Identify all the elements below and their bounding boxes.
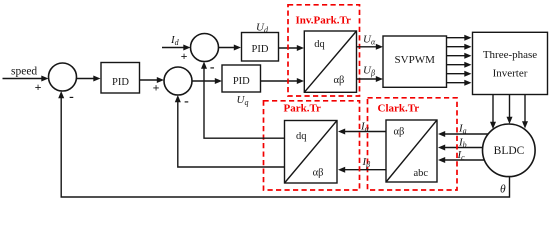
block PID3 d-axis current controller bbox=[242, 33, 279, 62]
node Ia label bbox=[458, 123, 467, 136]
boundary Clark.Tr red dashed box bbox=[368, 98, 458, 190]
block U2 SVPWM modulator bbox=[383, 36, 447, 87]
svg-text:Inverter: Inverter bbox=[493, 68, 528, 80]
node Ud label bbox=[256, 22, 269, 35]
wire SVPWM gate signal 3 to inverter bbox=[447, 53, 472, 59]
node theta label bbox=[500, 183, 506, 195]
node U-alpha label bbox=[363, 34, 376, 47]
summing junction S1 (speed loop) bbox=[49, 63, 77, 91]
wire I-alpha from Clark to Park transform bbox=[338, 129, 386, 135]
svg-text:Uβ: Uβ bbox=[363, 65, 375, 78]
wire Ib from BLDC to Clark transform bbox=[438, 145, 483, 151]
node plus sign at S2 bbox=[153, 81, 160, 95]
node plus sign at S3 bbox=[181, 49, 188, 63]
node I-beta label bbox=[362, 156, 371, 169]
wire Ia from BLDC to Clark transform bbox=[438, 131, 488, 137]
node minus sign at S2 bbox=[184, 94, 189, 109]
summing junction S3 (d-axis current loop) bbox=[191, 34, 219, 62]
svg-text:αβ: αβ bbox=[394, 127, 405, 138]
svg-text:Clark.Tr: Clark.Tr bbox=[378, 103, 420, 115]
wire U-beta from inverse Park to SVPWM bbox=[357, 76, 384, 82]
node Inv.Park.Tr label bbox=[296, 14, 352, 26]
wire U-alpha from inverse Park to SVPWM bbox=[357, 44, 384, 50]
svg-text:αβ: αβ bbox=[313, 168, 324, 179]
svg-text:SVPWM: SVPWM bbox=[395, 54, 436, 66]
svg-text:PID: PID bbox=[233, 76, 250, 87]
wire inverter phase B to BLDC bbox=[507, 95, 513, 125]
wire SVPWM gate signal 1 to inverter bbox=[447, 35, 472, 41]
wire inverter phase A to BLDC bbox=[490, 95, 496, 130]
wire S1 output to speed PID bbox=[77, 76, 101, 82]
wire theta feedback from BLDC along bottom to summing junction S1 bbox=[58, 91, 509, 197]
wire Id feedback from Park transform up to summing junction S3 bbox=[201, 62, 285, 139]
wire PID3 output to inverse Park dq input bbox=[279, 45, 305, 51]
wire PID1 output to summing junction S2 bbox=[140, 77, 165, 83]
block U4 Clark transform alpha-beta to abc bbox=[386, 120, 437, 182]
block M1 BLDC motor bbox=[483, 124, 536, 177]
boundary Inv.Park.Tr red dashed box bbox=[288, 5, 360, 96]
wire PID2 output to inverse Park dq input bbox=[261, 78, 305, 84]
svg-text:speed: speed bbox=[11, 65, 37, 77]
summing junction S2 (q-axis current loop) bbox=[164, 67, 192, 95]
block PID2 q-axis current controller bbox=[222, 65, 261, 92]
svg-text:Ud: Ud bbox=[256, 22, 269, 35]
wire inverter phase C to BLDC bbox=[522, 95, 528, 129]
node minus sign at S3 bbox=[210, 60, 215, 75]
node I-alpha label bbox=[360, 121, 370, 134]
svg-text:dq: dq bbox=[296, 131, 307, 142]
block U3 three-phase inverter bbox=[473, 32, 548, 94]
svg-text:BLDC: BLDC bbox=[494, 145, 525, 157]
svg-text:Inv.Park.Tr: Inv.Park.Tr bbox=[296, 14, 352, 26]
node Ic label bbox=[457, 149, 466, 162]
node Clark.Tr label bbox=[378, 103, 420, 115]
svg-text:+: + bbox=[153, 81, 160, 95]
node plus sign at S1 bbox=[35, 80, 42, 94]
wire speed input arrow into summing junction S1 bbox=[3, 76, 49, 82]
wire I-beta from Clark to Park transform bbox=[338, 167, 386, 173]
wire SVPWM gate signal 4 to inverter bbox=[447, 62, 472, 68]
svg-text:+: + bbox=[181, 49, 188, 63]
svg-text:Three-phase: Three-phase bbox=[483, 49, 537, 61]
svg-text:abc: abc bbox=[414, 168, 429, 179]
block PID1 speed controller bbox=[101, 63, 140, 94]
svg-text:θ: θ bbox=[500, 183, 506, 195]
svg-text:PID: PID bbox=[112, 77, 129, 88]
wire Iq feedback from Park transform up to summing junction S2 bbox=[175, 95, 285, 167]
node Uq label bbox=[237, 94, 249, 107]
wire S2 output to PID2 bbox=[192, 78, 222, 84]
wire SVPWM gate signal 5 to inverter bbox=[447, 71, 472, 77]
wire SVPWM gate signal 2 to inverter bbox=[447, 44, 472, 50]
svg-text:-: - bbox=[210, 60, 215, 75]
svg-text:Iβ: Iβ bbox=[362, 156, 371, 169]
node speed reference input label bbox=[11, 65, 37, 77]
node Park.Tr label bbox=[284, 103, 321, 115]
node minus sign at S1 bbox=[69, 90, 74, 105]
svg-text:Uα: Uα bbox=[363, 34, 376, 47]
svg-text:Id: Id bbox=[170, 34, 180, 47]
svg-text:αβ: αβ bbox=[334, 75, 345, 86]
boundary Park.Tr red dashed box bbox=[264, 101, 360, 190]
svg-text:-: - bbox=[69, 90, 74, 105]
svg-text:-: - bbox=[184, 94, 189, 109]
wire SVPWM gate signal 6 to inverter bbox=[447, 80, 472, 86]
wire Ic from BLDC to Clark transform bbox=[438, 157, 485, 163]
block U5 Park transform dq to alpha-beta bbox=[285, 121, 338, 184]
svg-text:Uq: Uq bbox=[237, 94, 249, 107]
block U1 inverse Park transform dq to alpha-beta bbox=[304, 31, 356, 92]
wire S3 output to PID3 bbox=[219, 45, 242, 51]
node Id reference label bbox=[170, 34, 180, 47]
svg-text:Park.Tr: Park.Tr bbox=[284, 103, 321, 115]
node U-beta label bbox=[363, 65, 375, 78]
svg-text:dq: dq bbox=[314, 39, 325, 50]
node Ib label bbox=[458, 137, 467, 150]
wire Id reference arrow into summing junction S3 bbox=[162, 45, 191, 51]
svg-text:PID: PID bbox=[252, 44, 269, 55]
svg-text:+: + bbox=[35, 80, 42, 94]
